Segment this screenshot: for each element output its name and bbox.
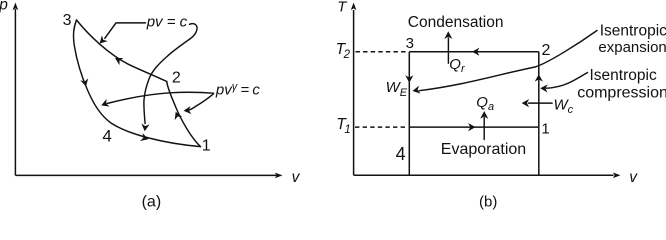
svg-text:2: 2 xyxy=(172,70,181,87)
svg-text:Isentropic: Isentropic xyxy=(590,67,657,84)
svg-text:WE: WE xyxy=(386,79,408,99)
svg-text:pvγ = c: pvγ = c xyxy=(215,81,260,99)
svg-text:4: 4 xyxy=(102,127,111,146)
svg-text:compression: compression xyxy=(577,85,666,102)
svg-text:1: 1 xyxy=(202,137,211,154)
svg-text:Qr: Qr xyxy=(449,56,466,75)
svg-text:Evaporation: Evaporation xyxy=(441,141,526,158)
svg-text:T2: T2 xyxy=(336,41,351,61)
svg-text:3: 3 xyxy=(63,12,72,29)
svg-text:v: v xyxy=(292,169,301,186)
svg-text:p: p xyxy=(0,0,8,13)
svg-text:Wc: Wc xyxy=(554,96,574,116)
svg-text:(b): (b) xyxy=(479,194,497,210)
svg-text:Isentropic: Isentropic xyxy=(600,23,666,40)
svg-text:T1: T1 xyxy=(336,116,350,136)
svg-text:Qa: Qa xyxy=(476,94,494,113)
svg-text:4: 4 xyxy=(396,144,406,164)
svg-text:T: T xyxy=(337,0,348,15)
svg-text:(a): (a) xyxy=(142,193,162,210)
svg-text:pv = c: pv = c xyxy=(146,13,188,30)
svg-text:expansion: expansion xyxy=(598,39,666,56)
svg-text:3: 3 xyxy=(406,35,414,52)
svg-text:2: 2 xyxy=(542,42,551,59)
svg-text:1: 1 xyxy=(541,121,549,138)
svg-text:v: v xyxy=(629,169,638,186)
svg-text:Condensation: Condensation xyxy=(408,14,504,31)
